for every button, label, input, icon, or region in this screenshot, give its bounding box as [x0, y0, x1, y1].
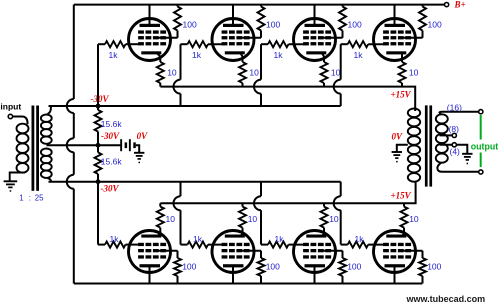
svg-text:100: 100 [266, 20, 280, 30]
svg-text:+15V: +15V [391, 191, 412, 201]
cathode bar [306, 235, 326, 238]
svg-text:15.6k: 15.6k [101, 157, 123, 167]
wire cathode lead [157, 228, 160, 237]
grid dashes [383, 30, 389, 33]
wire cathode lead [322, 53, 324, 62]
wire hop [67, 99, 74, 113]
svg-text:10: 10 [331, 67, 341, 77]
svg-text::: : [29, 194, 31, 203]
wire secondary bottom lead [48, 178, 51, 182]
wire plate lead [232, 267, 234, 284]
tube envelope [129, 19, 171, 61]
svg-text:0V: 0V [137, 131, 149, 141]
node -30V top grid bus [49, 105, 341, 107]
tube envelope [374, 19, 416, 61]
wire secondary (8) tap [440, 134, 453, 136]
wire hop [67, 175, 74, 189]
svg-text:100: 100 [428, 20, 442, 30]
wire grid dropper [340, 182, 342, 197]
svg-text:100: 100 [182, 262, 196, 272]
wire screen grid to resistor [403, 37, 423, 39]
wire control grid [289, 43, 307, 45]
svg-text:10: 10 [166, 214, 176, 224]
plate bar [140, 24, 161, 27]
resistor 1k grid V8 [341, 244, 348, 246]
transformer T1 secondary lower winding [41, 149, 52, 156]
wire control grid [368, 43, 386, 45]
resistor 1k grid V2 [181, 43, 188, 45]
wire secondary (4) tap [440, 145, 468, 154]
wire hop [67, 138, 74, 152]
input terminal [8, 114, 12, 118]
resistor 100 screen V7 [342, 251, 344, 258]
grid dashes [222, 243, 228, 246]
resistor 1k grid V4 [341, 43, 348, 45]
svg-text:100: 100 [183, 20, 197, 30]
wire cathode lead [241, 228, 243, 237]
cathode bar [141, 235, 161, 238]
wire plate lead [314, 5, 316, 25]
wire plate lead [394, 5, 396, 25]
resistor 1k grid V7 [261, 244, 268, 246]
transformer T2 core [425, 105, 428, 186]
wire cathode lead [401, 53, 403, 62]
transformer T1 secondary upper winding [41, 115, 52, 122]
svg-text:1k: 1k [192, 50, 202, 60]
tube envelope [212, 19, 254, 61]
grid dashes [303, 30, 309, 33]
svg-text:(4): (4) [450, 146, 461, 156]
ground (4) tap [462, 153, 472, 155]
transformer T1 primary winding [17, 124, 29, 134]
resistor 15.6k lower [97, 145, 99, 152]
resistor 100 screen V3 [342, 5, 344, 7]
output link line [480, 115, 482, 140]
svg-text:10: 10 [329, 214, 339, 224]
svg-text:1k: 1k [354, 50, 364, 60]
resistor 100 screen V6 [260, 251, 262, 258]
wire primary center tap [397, 145, 408, 152]
junction dot -30V mid [96, 143, 101, 148]
wire plate lead [149, 267, 151, 284]
resistor 10 cathode V6 [239, 207, 246, 228]
svg-text:1k: 1k [275, 234, 285, 244]
resistor 100 screen V2 [260, 5, 262, 7]
transformer T2 primary winding [414, 108, 416, 111]
ground input [4, 180, 18, 182]
wire grid dropper [97, 182, 99, 245]
wire screen grid to resistor [323, 250, 343, 252]
wire input lead [13, 117, 28, 125]
wire control grid [368, 244, 386, 246]
cathode bar [386, 51, 406, 54]
junction dot -30V bottom [96, 179, 101, 184]
svg-text:(16): (16) [447, 103, 462, 113]
svg-text:www.tubecad.com: www.tubecad.com [406, 294, 486, 304]
cathode bar [141, 51, 161, 54]
transformer T2 secondary winding [436, 114, 448, 123]
plate bar [385, 264, 406, 267]
bottom rail wire [74, 283, 423, 285]
svg-text:(8): (8) [449, 124, 460, 134]
svg-text:B+: B+ [454, 0, 466, 10]
wire plate lead [394, 267, 396, 284]
ground 0V primary [392, 151, 402, 153]
node -30V bottom grid bus [49, 181, 341, 183]
wire secondary (16) lead [439, 112, 478, 115]
wire secondary center tap [47, 144, 99, 146]
wire screen grid to resistor [241, 37, 261, 39]
wire control grid [126, 43, 142, 45]
tube envelope [374, 231, 416, 273]
resistor 10 cathode V8 [401, 207, 408, 228]
B+ rail [74, 4, 445, 6]
wire hop [254, 196, 261, 210]
svg-text:-30V: -30V [101, 184, 120, 194]
resistor 10 cathode V5 [157, 207, 164, 228]
battery 30V [98, 144, 120, 146]
wire grid dropper [260, 44, 262, 79]
left rail wire [73, 5, 75, 99]
tube envelope [294, 231, 336, 273]
resistor 100 screen V1 [177, 5, 179, 7]
wire grid dropper [180, 182, 182, 197]
svg-text:10: 10 [249, 67, 259, 77]
resistor 15.6k upper [97, 106, 99, 110]
wire hop [334, 80, 341, 94]
wire primary bottom lead [415, 181, 417, 185]
wire control grid [208, 43, 225, 45]
wire plate lead [314, 267, 316, 284]
svg-text:1k: 1k [109, 50, 119, 60]
svg-text:-30V: -30V [91, 94, 110, 104]
svg-text:10: 10 [409, 214, 419, 224]
svg-text:100: 100 [348, 20, 362, 30]
svg-text:10: 10 [167, 67, 177, 77]
wire hop [334, 196, 341, 210]
node +15V bottom cathode bus [160, 185, 415, 204]
plate bar [223, 264, 244, 267]
wire grid dropper [340, 44, 342, 79]
svg-text:100: 100 [266, 262, 280, 272]
wire primary to ground [10, 173, 25, 182]
wire screen grid to resistor [158, 250, 178, 252]
wire screen grid to resistor [158, 37, 178, 39]
cathode bar [386, 235, 406, 238]
terminal output bottom [479, 170, 483, 174]
wire screen grid to resistor [323, 37, 343, 39]
svg-text:25: 25 [35, 194, 44, 203]
resistor 1k grid V5 [98, 244, 105, 246]
wire secondary top lead [48, 106, 51, 114]
svg-text:10: 10 [248, 214, 258, 224]
wire plate lead [149, 5, 151, 25]
wire grid dropper [97, 44, 99, 106]
svg-text:1: 1 [19, 194, 23, 203]
ground battery [134, 152, 144, 154]
grid dashes [222, 30, 228, 33]
wire cathode lead [157, 53, 160, 62]
resistor 1k grid V1 [98, 43, 105, 45]
svg-text:1k: 1k [110, 234, 120, 244]
wire hop [254, 80, 261, 94]
svg-text:1k: 1k [193, 234, 203, 244]
wire cathode lead [322, 228, 324, 237]
plate bar [140, 264, 161, 267]
resistor 10 cathode V4 [399, 62, 406, 83]
cathode bar [225, 51, 245, 54]
terminal (16) [479, 110, 483, 114]
wire screen grid to resistor [403, 250, 423, 252]
B+ terminal [445, 3, 449, 7]
plate bar [385, 24, 406, 27]
svg-text:1k: 1k [355, 234, 365, 244]
svg-text:10: 10 [409, 67, 419, 77]
tube envelope [129, 231, 171, 273]
terminal (8) [452, 133, 456, 137]
wire grid dropper [180, 44, 182, 79]
svg-text:output: output [471, 141, 498, 151]
resistor 100 screen V5 [177, 251, 179, 258]
cathode bar [225, 235, 245, 238]
resistor 1k grid V6 [181, 244, 188, 246]
svg-text:1k: 1k [274, 50, 284, 60]
resistor 10 cathode V3 [321, 62, 328, 83]
grid dashes [138, 243, 144, 246]
grid dashes [383, 243, 389, 246]
plate bar [305, 24, 326, 27]
transformer T1 core [32, 106, 35, 191]
junction dot -30V top [96, 104, 101, 109]
resistor 1k grid V3 [261, 43, 268, 45]
svg-text:100: 100 [427, 262, 441, 272]
svg-text:+15V: +15V [391, 90, 412, 100]
wire plate lead [232, 5, 234, 25]
resistor 100 screen V8 [422, 251, 424, 258]
tube envelope [212, 231, 254, 273]
svg-text:-30V: -30V [101, 131, 120, 141]
tube envelope [294, 19, 336, 61]
plate bar [223, 24, 244, 27]
wire control grid [126, 244, 142, 246]
grid dashes [138, 30, 144, 33]
cathode bar [306, 51, 326, 54]
wire grid dropper [260, 182, 262, 197]
wire screen grid to resistor [241, 250, 261, 252]
grid dashes [303, 243, 309, 246]
terminal (4) tap [452, 143, 456, 147]
svg-text:input: input [0, 102, 21, 112]
svg-text:0V: 0V [392, 132, 404, 142]
wire control grid [208, 244, 225, 246]
wire cathode lead [241, 53, 243, 62]
resistor 100 screen V4 [422, 5, 424, 7]
svg-text:15.6k: 15.6k [101, 119, 123, 129]
wire hop [174, 80, 181, 94]
wire control grid [289, 244, 307, 246]
wire cathode lead [402, 228, 404, 237]
plate bar [305, 264, 326, 267]
wire secondary bottom lead [437, 163, 478, 172]
svg-text:100: 100 [347, 262, 361, 272]
resistor 10 cathode V7 [321, 207, 328, 228]
resistor 10 cathode V2 [239, 62, 246, 83]
node +15V top cathode bus [160, 87, 415, 110]
resistor 10 cathode V1 [157, 62, 164, 83]
wire hop [174, 196, 181, 210]
